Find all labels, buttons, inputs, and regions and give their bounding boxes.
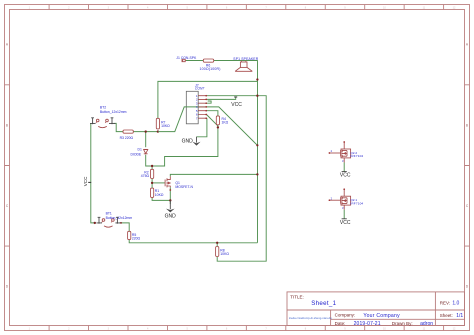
svg-text:SP1 SPEAKER: SP1 SPEAKER: [233, 57, 258, 61]
svg-text:1.0: 1.0: [452, 301, 459, 307]
svg-text:IRF7104: IRF7104: [350, 154, 363, 158]
svg-text:Date:: Date:: [335, 321, 346, 326]
svg-text:DIODE: DIODE: [130, 153, 141, 157]
svg-text:MOSFET-N: MOSFET-N: [175, 185, 193, 189]
svg-text:VCC: VCC: [231, 102, 242, 108]
svg-text:BT2: BT2: [100, 105, 106, 109]
svg-text:IRF7104: IRF7104: [350, 201, 363, 205]
svg-text:1KΩ: 1KΩ: [222, 121, 229, 125]
svg-text:GND: GND: [182, 139, 194, 145]
svg-text:10KΩ: 10KΩ: [161, 124, 170, 128]
svg-text:1/1: 1/1: [456, 313, 463, 319]
svg-text:Your Company: Your Company: [363, 313, 400, 319]
svg-text:Drawn By:: Drawn By:: [392, 321, 413, 326]
svg-text:VCC: VCC: [340, 173, 351, 179]
svg-text:Sheet_1: Sheet_1: [311, 300, 336, 307]
svg-text:100Ω(100R): 100Ω(100R): [200, 67, 221, 71]
svg-text:J1 CON-SPK: J1 CON-SPK: [176, 56, 197, 60]
svg-text:10KΩ: 10KΩ: [220, 252, 229, 256]
svg-text:adron: adron: [420, 321, 433, 327]
svg-text:lceda.cn/adron/p-di-sheng-nian: lceda.cn/adron/p-di-sheng-nian-dq: [289, 316, 332, 320]
svg-text:VCC: VCC: [340, 220, 351, 226]
svg-text:TITLE:: TITLE:: [290, 294, 304, 299]
svg-text:Company:: Company:: [335, 313, 356, 318]
svg-text:B: B: [6, 123, 8, 127]
svg-text:Button_12x12mm: Button_12x12mm: [106, 216, 133, 220]
svg-text:GND: GND: [165, 213, 177, 219]
svg-text:475Ω: 475Ω: [141, 174, 150, 178]
svg-text:2019-07-21: 2019-07-21: [354, 321, 381, 327]
svg-text:Sheet:: Sheet:: [440, 313, 453, 318]
svg-text:Button_12x12mm: Button_12x12mm: [100, 110, 127, 114]
svg-text:BT1: BT1: [106, 212, 112, 216]
svg-text:D1: D1: [138, 148, 142, 152]
svg-text:B: B: [466, 123, 468, 127]
svg-text:REV:: REV:: [440, 300, 450, 305]
svg-text:VCC: VCC: [83, 176, 88, 186]
svg-text:220Ω: 220Ω: [132, 237, 141, 241]
svg-text:10KΩ: 10KΩ: [155, 193, 164, 197]
svg-text:R3 220Ω: R3 220Ω: [120, 136, 134, 140]
svg-text:CON7: CON7: [195, 86, 205, 90]
